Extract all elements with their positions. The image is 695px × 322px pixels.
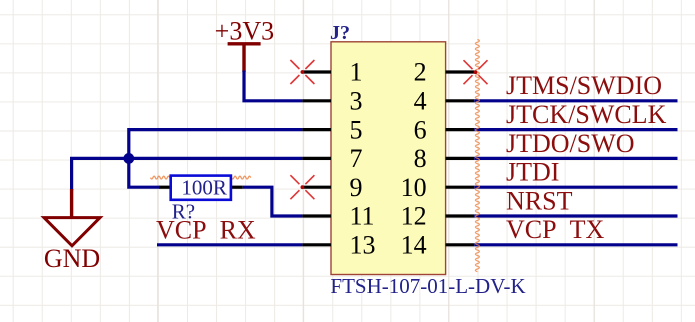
- svg-text:JTMS/SWDIO: JTMS/SWDIO: [506, 71, 662, 100]
- svg-text:7: 7: [350, 144, 363, 173]
- junction: [123, 153, 134, 164]
- svg-text:JTDO/SWO: JTDO/SWO: [506, 129, 635, 158]
- svg-text:4: 4: [414, 87, 427, 116]
- pin 1: [302, 58, 362, 87]
- wire junction to resistor: [129, 158, 160, 187]
- ERC marker resistor pin 2: [232, 176, 251, 179]
- wire pin 13 VCP_RX: [157, 243, 302, 246]
- svg-text:JTCK/SWCLK: JTCK/SWCLK: [506, 100, 667, 129]
- svg-text:JTDI: JTDI: [506, 158, 559, 187]
- pin 11: [302, 202, 374, 231]
- pin 8: [414, 144, 475, 173]
- wire pin 6 net JTCK/SWCLK: [474, 128, 677, 131]
- no-connect X pin 1: [290, 60, 314, 84]
- pin 10: [401, 173, 475, 202]
- pin 7: [302, 144, 362, 173]
- svg-text:NRST: NRST: [506, 186, 573, 215]
- svg-text:100R: 100R: [181, 176, 227, 200]
- svg-text:FTSH-107-01-L-DV-K: FTSH-107-01-L-DV-K: [330, 274, 525, 298]
- wire +3V3 to pin 3: [244, 71, 302, 101]
- wire pin 12 net NRST: [474, 214, 677, 217]
- svg-text:6: 6: [414, 115, 427, 144]
- svg-text:+3V3: +3V3: [215, 17, 274, 46]
- svg-text:3: 3: [350, 87, 363, 116]
- svg-text:VCP RX: VCP RX: [156, 215, 256, 244]
- ERC marker resistor pin 1: [151, 176, 170, 179]
- svg-text:10: 10: [401, 173, 427, 202]
- no-connect X pin 9: [290, 175, 314, 199]
- wire pin 7 to GND: [72, 158, 303, 190]
- wire pin 4 net JTMS/SWDIO: [474, 99, 677, 102]
- svg-text:J?: J?: [330, 22, 350, 44]
- wire pin 14 net VCP TX: [474, 243, 677, 246]
- pin 9: [302, 173, 362, 202]
- svg-text:8: 8: [414, 144, 427, 173]
- wire pin 8 net JTDO/SWO: [474, 157, 677, 160]
- svg-text:14: 14: [401, 231, 427, 260]
- ground GND: [44, 189, 100, 273]
- power symbol +3V3: [215, 17, 274, 72]
- svg-text:1: 1: [350, 58, 363, 87]
- pin 14: [401, 231, 475, 260]
- pin 3: [302, 87, 362, 116]
- svg-text:GND: GND: [44, 244, 100, 273]
- svg-text:12: 12: [401, 202, 427, 231]
- pin 5: [302, 115, 362, 144]
- pin 13: [302, 231, 375, 260]
- svg-text:5: 5: [350, 115, 363, 144]
- svg-text:2: 2: [414, 58, 427, 87]
- wire pin 5 to junction: [129, 130, 303, 159]
- connector J? body: [331, 42, 446, 275]
- svg-text:9: 9: [350, 173, 363, 202]
- wire resistor to pin 11: [243, 187, 303, 216]
- resistor R? pin right: [231, 186, 243, 189]
- svg-text:VCP TX: VCP TX: [506, 215, 604, 244]
- resistor R? body 100R: [171, 176, 231, 200]
- wire pin 10 net JTDI: [474, 186, 677, 189]
- pin 12: [401, 202, 475, 231]
- pin 4: [414, 87, 475, 116]
- resistor R? pin left: [159, 186, 171, 189]
- pin 2: [414, 58, 475, 87]
- svg-text:11: 11: [350, 202, 375, 231]
- pin 6: [414, 115, 475, 144]
- no-connect X pin 2: [464, 60, 488, 84]
- svg-text:13: 13: [350, 231, 376, 260]
- ERC marker connector right pins: [475, 40, 479, 272]
